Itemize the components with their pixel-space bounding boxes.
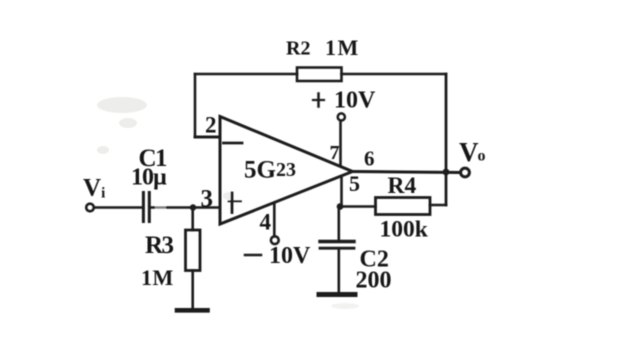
resistor R4	[376, 198, 431, 215]
node 3 junction	[190, 204, 196, 210]
terminal Vo	[461, 168, 470, 177]
svg-text:10V: 10V	[334, 88, 376, 114]
wire output pin 6	[353, 172, 461, 173]
wire feedback top right segment	[342, 73, 447, 76]
label -10V minus dash	[245, 254, 261, 257]
svg-text:10µ: 10µ	[131, 165, 167, 191]
wire C1 to node 3 to op-amp input	[151, 206, 220, 209]
svg-text:Vi: Vi	[83, 175, 105, 202]
inverting input minus sign	[224, 142, 243, 145]
wire feedback right vertical	[445, 74, 448, 205]
svg-text:6: 6	[364, 147, 375, 171]
wire pin 5	[340, 176, 343, 207]
svg-text:R3: R3	[145, 232, 174, 259]
terminal -10V	[271, 236, 279, 244]
wire Vi to C1	[94, 206, 141, 209]
wire node to C2	[337, 207, 340, 241]
wire pin 7	[339, 121, 342, 166]
svg-text:V: V	[459, 137, 479, 167]
label +10V plus sign	[313, 94, 324, 107]
svg-text:2: 2	[205, 113, 217, 138]
terminal +10V	[338, 113, 345, 120]
svg-text:1M: 1M	[325, 35, 360, 60]
wire feedback left vertical	[194, 74, 197, 137]
svg-text:o: o	[478, 148, 486, 165]
svg-text:200: 200	[356, 268, 392, 294]
capacitor C1	[143, 193, 149, 222]
wire pin5 node to R4	[340, 205, 376, 208]
wire C2 to ground	[337, 249, 340, 292]
wire pin 4	[273, 204, 276, 236]
terminal Vi	[86, 204, 94, 212]
svg-text:R2: R2	[286, 38, 310, 60]
svg-text:R4: R4	[388, 173, 417, 199]
wire pin 2 stub	[195, 136, 220, 139]
svg-text:7: 7	[330, 142, 340, 164]
svg-text:4: 4	[260, 209, 272, 234]
svg-text:5: 5	[349, 171, 360, 196]
svg-text:100k: 100k	[380, 217, 429, 243]
svg-text:10V: 10V	[269, 243, 311, 269]
svg-text:5G23: 5G23	[244, 157, 296, 184]
svg-text:3: 3	[201, 186, 214, 213]
wire R4 to feedback vertical	[430, 204, 446, 207]
junction pin5/R4/C2	[337, 203, 344, 210]
wire feedback top left segment	[195, 73, 297, 76]
non-inverting input plus sign	[229, 193, 242, 213]
ground (R3)	[177, 308, 208, 313]
op-amp U1 5G23	[220, 117, 353, 225]
wire node 3 to R3	[191, 208, 194, 231]
capacitor C2	[320, 242, 354, 249]
resistor R2	[297, 68, 342, 82]
smudge artifact left	[97, 97, 359, 309]
ground (C2)	[319, 292, 355, 297]
svg-text:1M: 1M	[141, 265, 174, 290]
resistor R3	[186, 230, 201, 271]
wire R3 to ground	[191, 271, 194, 309]
junction output node	[443, 169, 450, 176]
